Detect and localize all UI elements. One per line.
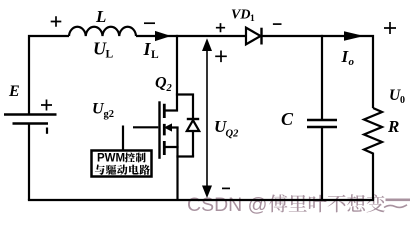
svg-text:2: 2 xyxy=(166,83,173,94)
svg-text:CSDN @: CSDN @ xyxy=(187,194,267,216)
svg-text:Q2: Q2 xyxy=(226,129,240,140)
svg-text:R: R xyxy=(387,117,399,136)
svg-text:L: L xyxy=(106,49,114,61)
svg-text:g2: g2 xyxy=(104,109,115,120)
svg-text:VD: VD xyxy=(231,8,250,23)
svg-text:L: L xyxy=(151,49,159,61)
svg-text:0: 0 xyxy=(400,95,405,106)
svg-text:E: E xyxy=(8,83,20,100)
svg-text:1: 1 xyxy=(250,14,255,24)
svg-text:PWM: PWM xyxy=(97,153,125,165)
svg-text:o: o xyxy=(349,56,355,68)
svg-text:Q: Q xyxy=(155,75,167,92)
svg-text:C: C xyxy=(281,109,294,129)
svg-text:L: L xyxy=(95,7,106,26)
